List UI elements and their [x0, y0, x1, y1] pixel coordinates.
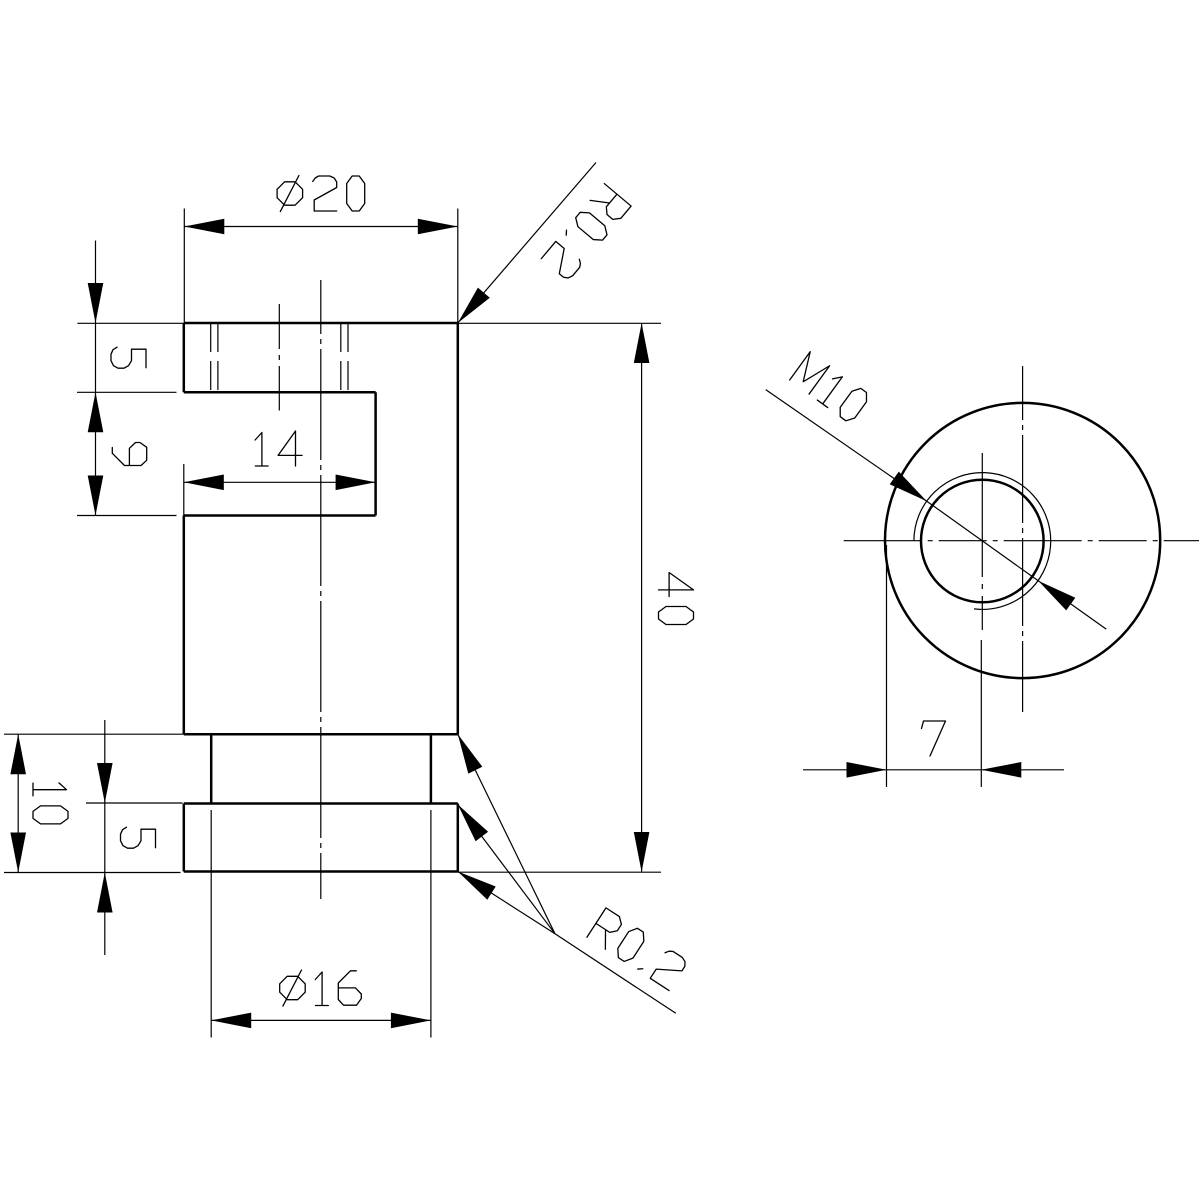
centerline: part axis (vertical)	[320, 280, 322, 899]
hidden line: thread minor dia right	[340, 323, 342, 392]
dimension dia20: value text	[277, 176, 365, 212]
leader R0.2 (top): value text	[541, 184, 631, 282]
dimension dia16: left extension line	[210, 810, 212, 1038]
dimension 10: value text	[33, 783, 68, 824]
part outline: top face edge	[184, 322, 458, 325]
leader R0.2 (bottom): branch to bottom corner	[458, 872, 555, 934]
dimension 10: lower arrow	[10, 833, 26, 873]
dimension 7: left extension line	[886, 545, 888, 787]
dimension 9: value text	[112, 443, 146, 466]
top view: thread minor dia circle	[921, 480, 1044, 603]
top view: thread major dia arc (3/4 circle)	[914, 473, 1051, 610]
dimension 5 (flange): value text	[121, 827, 156, 848]
dimension 7: value text	[922, 721, 946, 756]
dimension 14: right arrow	[336, 475, 376, 491]
leader R0.2 (bottom): value text	[587, 908, 688, 991]
dimension dia16: right arrow	[391, 1013, 431, 1029]
part outline: groove left edge	[210, 734, 213, 803]
dimension 5 (flange): upper arrow (outside)	[97, 763, 113, 803]
dimension dia16: left arrow	[211, 1013, 251, 1029]
leader M10: arrow at upper-left intersection	[890, 472, 927, 502]
dimension 5/9: vertical dimension line	[95, 241, 97, 516]
part outline: flange top edge	[184, 802, 458, 805]
centerline: top view vertical	[1022, 366, 1024, 712]
dimension 9: upper arrow	[88, 392, 104, 432]
leader M10: line across thread circle	[927, 501, 1038, 581]
dimension 10: upper arrow	[10, 734, 26, 774]
dimension 9 (slot): extension line at slot bottom	[77, 515, 177, 517]
leader R0.2 (bottom): text leader line	[555, 934, 676, 1014]
dimension 40: dimension line	[641, 323, 643, 872]
dimension dia20: left arrow	[184, 219, 224, 235]
leader R0.2 (bottom): arrow at flange top corner	[458, 805, 488, 842]
dimension dia16: value text	[280, 970, 362, 1006]
centerline: threaded hole axis (left view)	[278, 304, 280, 411]
dimension 5 (top step): extension line at part top	[77, 322, 183, 324]
dimension 10: extension line at groove top	[4, 733, 184, 735]
part outline: slot right edge	[374, 392, 377, 515]
dimension 9: lower arrow	[88, 476, 104, 516]
leader R0.2 (top): arrowhead at corner	[458, 288, 490, 323]
dimension 40: bottom extension line	[458, 871, 661, 873]
part outline: shoulder at groove top	[184, 733, 458, 736]
hidden line: thread minor dia left	[217, 323, 219, 392]
dimension 10: dimension line	[17, 734, 19, 872]
leader R0.2 (bottom): arrow at groove top corner	[458, 734, 483, 773]
dimension 14: value text	[255, 431, 302, 466]
leader M10: tail line from text	[766, 390, 927, 502]
dimension 14: left extension line	[183, 464, 185, 516]
centerline: top view horizontal	[844, 540, 1199, 542]
hidden line: thread major dia left	[210, 323, 212, 392]
dimension 10: extension line at bottom	[4, 872, 181, 874]
dimension 7: dimension line	[803, 769, 1064, 771]
leader M10: value text	[790, 352, 871, 424]
dimension dia16: dimension line	[211, 1019, 431, 1021]
dimension 40: top arrow	[634, 323, 650, 363]
part outline: slot bottom edge	[184, 514, 376, 517]
part outline: slot top edge	[184, 391, 376, 394]
leader M10: arrow at lower-right intersection	[1038, 581, 1075, 611]
top view: outer circle dia20	[885, 403, 1160, 678]
part outline: bottom face edge	[184, 870, 458, 873]
dimension 14: left arrow	[184, 475, 224, 491]
part outline: groove right edge	[430, 734, 433, 803]
dimension 5 (flange): dimension line w/ tails	[104, 720, 106, 955]
leader R0.2 (bottom): branch to groove top corner	[458, 734, 555, 934]
part outline: flange left edge	[183, 804, 186, 872]
part outline: flange right edge	[457, 804, 460, 872]
leader R0.2 (top): leader line	[458, 163, 596, 324]
part outline: right side of main body	[457, 323, 460, 734]
dimension 5 (top step): extension line at step	[77, 391, 177, 393]
dimension 5 (flange): extension line at flange top	[86, 802, 183, 804]
dimension dia20: right arrow	[418, 219, 458, 235]
part outline: left side lower (below slot)	[183, 516, 186, 735]
hidden line: thread major dia right	[347, 323, 349, 392]
dimension 5 (flange): lower arrow (outside)	[97, 873, 113, 913]
centerline: thread hole vertical	[981, 453, 983, 630]
dimension 40: top extension line	[458, 322, 661, 324]
dimension 5: upper arrow (outside)	[88, 283, 104, 323]
dimension 14: dimension line	[184, 481, 376, 483]
part outline: left side upper (above slot)	[183, 323, 186, 392]
dimension dia20: dimension line	[184, 226, 458, 228]
dimension 40: value text	[659, 573, 694, 625]
dimension 7: left arrow (outside)	[847, 762, 887, 778]
dimension 40: bottom arrow	[634, 832, 650, 872]
dimension dia20: left extension line	[183, 209, 185, 324]
leader R0.2 (bottom): arrow at bottom corner	[458, 872, 496, 900]
leader R0.2 (bottom): branch to flange top corner	[458, 805, 555, 934]
dimension 5: value text	[111, 347, 146, 368]
dimension dia20: right extension line	[457, 209, 459, 324]
dimension 7: right arrow (outside)	[981, 762, 1021, 778]
leader M10: tail line lower right	[1038, 581, 1106, 629]
dimension 7: right extension line	[980, 640, 982, 787]
dimension dia16: right extension line	[430, 810, 432, 1038]
